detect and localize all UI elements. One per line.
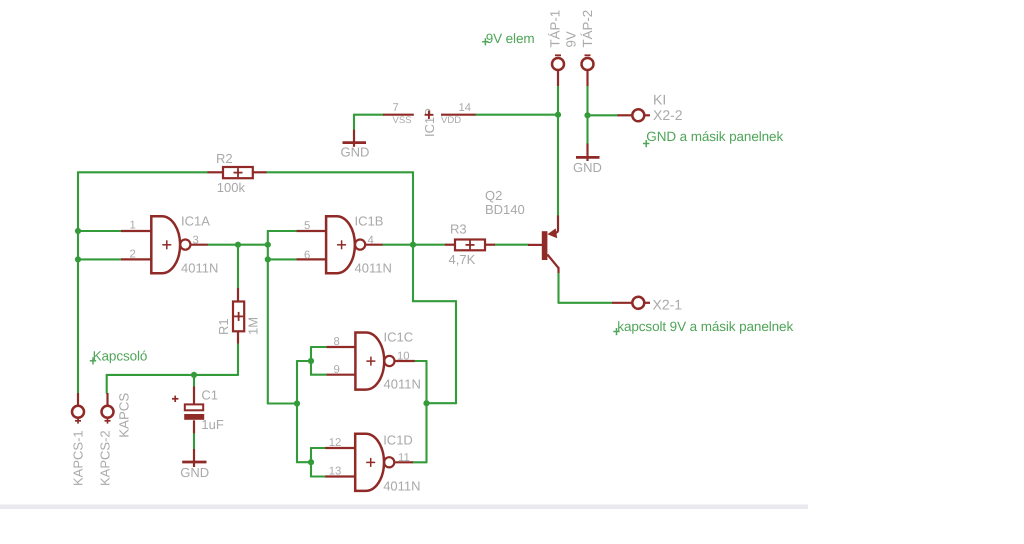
- pin IC1P VSS pin 7: [383, 114, 414, 116]
- svg-text:IC1C: IC1C: [384, 330, 414, 345]
- pin IC1A pin 3: [191, 244, 208, 246]
- pin TAP-1 stub: [557, 71, 559, 87]
- svg-text:10: 10: [397, 351, 410, 363]
- wire to IC1C/IC1D output node: [427, 402, 457, 404]
- svg-text:1uF: 1uF: [201, 417, 223, 432]
- node 9V junction: [555, 112, 561, 118]
- pin R3 right lead: [485, 244, 495, 246]
- wire KAPCS-2 drop: [106, 375, 108, 393]
- wire IC1B pin6 lead: [268, 258, 297, 260]
- svg-text:X2-2: X2-2: [653, 107, 683, 123]
- pin X2-1 origin tick: [646, 302, 651, 304]
- wire TAP-2 junction to GND: [586, 115, 588, 143]
- wire IC1D output lead: [413, 461, 427, 463]
- svg-text:8: 8: [334, 336, 340, 348]
- svg-text:6: 6: [304, 250, 310, 262]
- svg-text:3: 3: [193, 235, 199, 247]
- connector X2-1: [632, 297, 644, 309]
- pin X2-2 origin tick: [646, 114, 651, 116]
- wire IC1A pin2 lead: [78, 258, 121, 260]
- svg-text:KAPCS-2: KAPCS-2: [98, 430, 113, 486]
- wire IC1C pin9 lead: [311, 374, 327, 376]
- pin C1 bottom stub: [193, 420, 195, 433]
- svg-text:R2: R2: [216, 151, 233, 166]
- wire feedback to parallel gates horizontal: [413, 300, 456, 302]
- wire collector to X2-1: [559, 302, 613, 304]
- wire left vertical KAPCS-1 column: [77, 172, 79, 393]
- wire TAP-2 junction to X2-2: [588, 114, 618, 116]
- svg-text:12: 12: [329, 437, 342, 449]
- svg-text:4,7K: 4,7K: [449, 252, 476, 267]
- net flag 9V elem: [482, 41, 488, 43]
- connector TAP-1: [552, 55, 564, 70]
- svg-text:9V: 9V: [564, 31, 579, 47]
- svg-text:KI: KI: [653, 91, 666, 107]
- pin IC1P VDD pin 14: [441, 114, 476, 116]
- resistor R3: [455, 240, 485, 251]
- op-amp/gate IC1A: [151, 216, 190, 273]
- svg-text:9: 9: [334, 364, 340, 376]
- pin IC1B pin 5: [297, 230, 326, 232]
- pin IC1A pin 2: [121, 258, 151, 260]
- wire IC1C output lead: [415, 360, 427, 362]
- svg-text:GND: GND: [180, 465, 209, 480]
- op-amp/gate IC1C: [355, 333, 394, 390]
- pin R2 right lead: [253, 171, 267, 173]
- pin X2-1 stub: [612, 302, 632, 304]
- resistor R1: [233, 302, 244, 332]
- wire IC1A output row: [208, 244, 268, 246]
- pin IC1B pin 4: [366, 244, 383, 246]
- wire to IC1C/IC1D input vertical: [268, 402, 297, 404]
- pin KAPCS-2 stub: [106, 393, 108, 405]
- pin R1 top lead: [237, 288, 239, 302]
- wire IC1B output to junction: [383, 244, 413, 246]
- pin KAPCS-1 stub: [77, 393, 79, 405]
- svg-text:4011N: 4011N: [355, 260, 392, 275]
- wire R3 to Q2 base: [495, 244, 528, 246]
- node IC1B output junction: [410, 242, 416, 248]
- wire to IC1D input tie: [297, 461, 311, 463]
- pin TAP-2 stub: [586, 71, 588, 87]
- bottom divider band: [0, 505, 808, 510]
- svg-text:IC1D: IC1D: [383, 433, 413, 448]
- pin C1 top stub: [193, 387, 195, 405]
- net flag Kapcsolo: [90, 360, 96, 362]
- svg-text:X2-1: X2-1: [653, 297, 683, 313]
- svg-text:Kapcsoló: Kapcsoló: [93, 349, 148, 364]
- pin IC1D pin 11: [395, 461, 413, 463]
- ground GND (C1): [182, 449, 206, 467]
- svg-text:7: 7: [393, 102, 399, 114]
- ground GND (TAP-2): [576, 144, 600, 162]
- node IC1C input junction: [308, 358, 314, 364]
- wire IC1D pin13 lead: [311, 475, 325, 477]
- svg-text:GND a másik panelnek: GND a másik panelnek: [646, 129, 783, 144]
- svg-text:kapcsolt 9V a másik panelnek: kapcsolt 9V a másik panelnek: [617, 319, 793, 334]
- svg-text:GND: GND: [341, 145, 370, 160]
- svg-text:4: 4: [368, 235, 374, 247]
- pin Q2 base lead: [528, 244, 542, 246]
- svg-text:4011N: 4011N: [181, 260, 218, 275]
- wire VDD to TAP-1 junction: [476, 114, 558, 116]
- svg-text:IC1B: IC1B: [355, 214, 384, 229]
- wire IC1A pin1 lead: [78, 230, 121, 232]
- node parallel input junction: [294, 400, 300, 406]
- pin IC1C pin 9: [327, 374, 355, 376]
- connector KAPCS-2: [102, 406, 114, 424]
- part origin cross IC1P: [425, 111, 434, 119]
- svg-text:4011N: 4011N: [383, 478, 420, 493]
- node pin2 junction: [75, 256, 81, 262]
- pin IC1C pin 10: [396, 360, 415, 362]
- node IC1B input junction: [265, 242, 271, 248]
- pin X2-2 stub: [617, 114, 632, 116]
- node TAP-2 junction: [584, 112, 590, 118]
- svg-text:9V elem: 9V elem: [486, 31, 535, 46]
- svg-text:1M: 1M: [246, 317, 261, 335]
- wire Kapcsolo row: [107, 374, 238, 376]
- wire R2 row left: [78, 171, 208, 173]
- net flag GND a masik panelnek: [643, 143, 649, 145]
- wire parallel-gates output vertical x456: [455, 301, 457, 403]
- svg-text:2: 2: [130, 249, 136, 261]
- capacitor C1: [172, 396, 204, 420]
- pin R2 left lead: [208, 171, 224, 173]
- svg-text:KAPCS-1: KAPCS-1: [71, 430, 86, 486]
- svg-text:C1: C1: [201, 388, 218, 403]
- connector TAP-2: [582, 55, 594, 70]
- pin R3 left lead: [445, 244, 455, 246]
- pin IC1D pin 12: [325, 447, 355, 449]
- pin IC1A pin 1: [121, 230, 151, 232]
- svg-text:TÁP-1: TÁP-1: [548, 10, 563, 48]
- wire Q2 collector drop: [557, 273, 559, 303]
- connector KAPCS-1: [72, 406, 84, 424]
- svg-text:R3: R3: [450, 222, 467, 237]
- net flag kapcsolt 9V: [613, 331, 619, 333]
- svg-text:R1: R1: [216, 318, 231, 335]
- ground GND (IC1P VSS): [343, 130, 367, 147]
- wire TAP-1 drop: [557, 86, 559, 115]
- op-amp/gate IC1B: [326, 216, 365, 273]
- wire R1 top lead: [237, 245, 239, 288]
- svg-text:IC1A: IC1A: [181, 214, 210, 229]
- wire IC1D input tie vertical: [310, 448, 312, 477]
- wire junction to R3: [413, 244, 445, 246]
- svg-text:KAPCS: KAPCS: [117, 393, 132, 438]
- transistor Q2: [542, 215, 559, 273]
- wire C1 to GND: [193, 433, 195, 449]
- wire R2 row right to feedback vertical: [267, 171, 414, 173]
- wire IC1D pin12 lead: [311, 447, 325, 449]
- wire 9V down to Q2 emitter: [557, 115, 559, 216]
- wire IC1C/IC1D output tie vertical: [425, 361, 427, 462]
- pin R1 bottom lead: [237, 331, 239, 343]
- node C1 junction: [191, 372, 197, 378]
- svg-text:11: 11: [398, 452, 410, 464]
- node pin1 junction: [75, 228, 81, 234]
- resistor R2: [223, 167, 253, 178]
- pin IC1C pin 8: [327, 346, 355, 348]
- wire IC1C pin8 lead: [311, 346, 327, 348]
- node IC1C/IC1D output junction: [423, 400, 429, 406]
- op-amp/gate IC1D: [355, 434, 394, 491]
- pin IC1D pin 13: [325, 475, 355, 477]
- svg-text:TÁP-2: TÁP-2: [580, 10, 595, 48]
- wire VSS corner to GND: [353, 115, 355, 130]
- svg-text:14: 14: [459, 102, 472, 114]
- svg-text:GND: GND: [573, 160, 602, 175]
- wire VSS corner horizontal: [354, 114, 383, 116]
- wire IC1B pin5 lead: [268, 230, 297, 232]
- node R1 top junction: [235, 242, 241, 248]
- node IC1D input junction: [308, 459, 314, 465]
- wire parallel input vertical x297: [296, 361, 298, 462]
- wire IC1B input tie vertical down to parallel inputs: [267, 231, 269, 404]
- wire C1 top drop: [193, 375, 195, 387]
- wire TAP-2 drop: [586, 86, 588, 115]
- svg-text:100k: 100k: [217, 180, 246, 195]
- svg-text:BD140: BD140: [485, 202, 525, 217]
- wire feedback vertical x413: [412, 172, 414, 301]
- svg-text:13: 13: [329, 466, 342, 478]
- wire to IC1C input tie: [297, 360, 311, 362]
- svg-text:VSS: VSS: [393, 115, 412, 126]
- svg-text:5: 5: [304, 220, 310, 232]
- wire R1 bottom lead: [237, 344, 239, 375]
- pin IC1B pin 6: [297, 258, 326, 260]
- svg-text:1: 1: [130, 220, 136, 232]
- svg-text:VDD: VDD: [441, 115, 461, 126]
- node pin6 junction: [265, 256, 271, 262]
- wire IC1C input tie vertical: [310, 347, 312, 375]
- svg-text:4011N: 4011N: [384, 377, 421, 392]
- svg-text:Q2: Q2: [485, 188, 502, 203]
- connector X2-2: [632, 109, 644, 121]
